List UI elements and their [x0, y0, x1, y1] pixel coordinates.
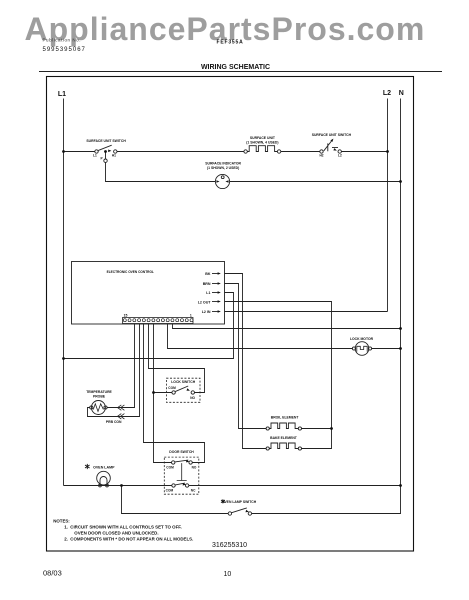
svg-text:15: 15 — [124, 313, 128, 317]
svg-text:NC: NC — [191, 489, 196, 493]
svg-text:L1: L1 — [58, 91, 66, 98]
svg-text:1. CIRCUIT SHOWN WITH ALL CON: 1. CIRCUIT SHOWN WITH ALL CONTROLS SET T… — [64, 524, 182, 529]
svg-text:5995395067: 5995395067 — [43, 47, 86, 53]
svg-text:PROBE: PROBE — [93, 394, 106, 398]
svg-text:P: P — [101, 156, 104, 160]
svg-text:BRN: BRN — [203, 282, 211, 286]
svg-text:L2: L2 — [338, 154, 342, 158]
svg-text:COM: COM — [166, 465, 174, 469]
svg-text:L1: L1 — [93, 154, 97, 158]
svg-text:(1 SHOWN, 2 USED): (1 SHOWN, 2 USED) — [207, 166, 239, 170]
svg-text:10: 10 — [224, 571, 232, 578]
svg-text:Publication No.: Publication No. — [43, 38, 82, 43]
svg-text:H2: H2 — [319, 154, 323, 158]
svg-text:1: 1 — [190, 313, 192, 317]
svg-text:ELECTRONIC OVEN CONTROL: ELECTRONIC OVEN CONTROL — [107, 270, 154, 274]
svg-text:BROIL ELEMENT: BROIL ELEMENT — [271, 416, 300, 420]
svg-text:L1: L1 — [206, 291, 210, 295]
svg-text:SURFACE UNIT SWITCH: SURFACE UNIT SWITCH — [86, 139, 126, 143]
svg-text:COM: COM — [168, 386, 176, 390]
svg-text:DOOR SWITCH: DOOR SWITCH — [169, 450, 194, 454]
svg-text:NO: NO — [190, 396, 195, 400]
svg-text:WIRING SCHEMATIC: WIRING SCHEMATIC — [201, 64, 270, 71]
svg-text:NOTES:: NOTES: — [53, 518, 70, 523]
svg-text:H1: H1 — [112, 154, 116, 158]
svg-text:FEF355A: FEF355A — [217, 39, 244, 45]
svg-text:BAKE ELEMENT: BAKE ELEMENT — [270, 436, 298, 440]
svg-text:OVEN LAMP SWITCH: OVEN LAMP SWITCH — [222, 500, 257, 504]
svg-text:L2: L2 — [383, 90, 391, 97]
svg-text:L2 OUT: L2 OUT — [198, 300, 212, 304]
svg-text:L2 IN: L2 IN — [202, 310, 211, 314]
svg-text:(1 SHOWN, 4 USED): (1 SHOWN, 4 USED) — [246, 140, 278, 144]
svg-text:N: N — [399, 90, 404, 97]
svg-text:OVEN LAMP: OVEN LAMP — [93, 466, 115, 470]
svg-text:316255310: 316255310 — [212, 542, 247, 549]
svg-text:OVEN DOOR CLOSED AND UNLOCKED.: OVEN DOOR CLOSED AND UNLOCKED. — [74, 530, 158, 535]
svg-text:2. COMPONENTS WITH * DO NOT A: 2. COMPONENTS WITH * DO NOT APPEAR ON AL… — [64, 537, 193, 542]
svg-text:LOCK MOTOR: LOCK MOTOR — [350, 337, 374, 341]
svg-text:COM: COM — [166, 489, 174, 493]
svg-text:BK: BK — [205, 272, 211, 276]
svg-text:SURFACE INDICATOR: SURFACE INDICATOR — [205, 162, 241, 166]
svg-text:NO: NO — [192, 465, 197, 469]
svg-text:PRB CON: PRB CON — [106, 420, 122, 424]
svg-text:SURFACE UNIT SWITCH: SURFACE UNIT SWITCH — [312, 133, 352, 137]
svg-text:08/03: 08/03 — [43, 569, 62, 578]
svg-text:LOCK SWITCH: LOCK SWITCH — [171, 380, 195, 384]
